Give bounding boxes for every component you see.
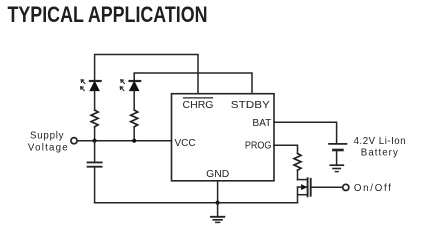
wire bbox=[94, 127, 96, 141]
terminal Supply Voltage bbox=[28, 131, 77, 154]
pin label GND bbox=[206, 169, 229, 180]
svg-text:Supply: Supply bbox=[30, 131, 64, 142]
svg-text:VCC: VCC bbox=[175, 138, 196, 149]
wire BAT bbox=[274, 122, 337, 143]
svg-text:4.2V Li-Ion: 4.2V Li-Ion bbox=[354, 136, 406, 147]
LED D2 bbox=[120, 80, 140, 91]
resistor R1 bbox=[91, 110, 98, 127]
IC U1 bbox=[172, 94, 275, 181]
wire bbox=[133, 91, 135, 110]
wire gate bbox=[311, 186, 343, 188]
svg-text:STDBY: STDBY bbox=[231, 100, 270, 111]
ground bbox=[211, 203, 224, 223]
svg-text:CHRG: CHRG bbox=[183, 100, 214, 111]
svg-text:GND: GND bbox=[206, 169, 229, 180]
wire CHRG top bbox=[95, 55, 198, 94]
pin label PROG bbox=[245, 141, 272, 152]
wire STDBY top bbox=[134, 73, 252, 94]
title bbox=[8, 2, 208, 27]
svg-text:Voltage: Voltage bbox=[28, 142, 68, 153]
svg-text:BAT: BAT bbox=[252, 118, 271, 129]
wire bbox=[94, 91, 96, 110]
pin label CHRG bbox=[183, 98, 214, 111]
wire ground rail bbox=[95, 202, 298, 204]
svg-text:TYPICAL APPLICATION: TYPICAL APPLICATION bbox=[8, 2, 208, 27]
terminal On/Off bbox=[343, 183, 391, 194]
capacitor C1 bbox=[88, 141, 102, 203]
LED D1 bbox=[81, 80, 101, 91]
pin label STDBY bbox=[231, 100, 270, 111]
wire VCC rail bbox=[77, 140, 171, 142]
wire PROG bbox=[274, 145, 298, 153]
junction bbox=[216, 201, 220, 205]
junction bbox=[132, 139, 136, 143]
wire GND pin bbox=[217, 181, 219, 203]
label battery value bbox=[354, 136, 406, 159]
pin label VCC bbox=[175, 138, 196, 149]
svg-text:Battery: Battery bbox=[361, 148, 398, 159]
ground battery bbox=[330, 165, 343, 171]
battery BT1 bbox=[329, 144, 347, 165]
svg-text:On/Off: On/Off bbox=[354, 183, 391, 194]
pin label BAT bbox=[252, 118, 271, 129]
wire bbox=[297, 170, 299, 179]
transistor Q1 bbox=[298, 178, 311, 203]
resistor R3 bbox=[294, 153, 301, 170]
wire bbox=[133, 127, 135, 141]
svg-text:PROG: PROG bbox=[245, 141, 272, 152]
junction bbox=[93, 139, 97, 143]
resistor R2 bbox=[131, 110, 138, 127]
